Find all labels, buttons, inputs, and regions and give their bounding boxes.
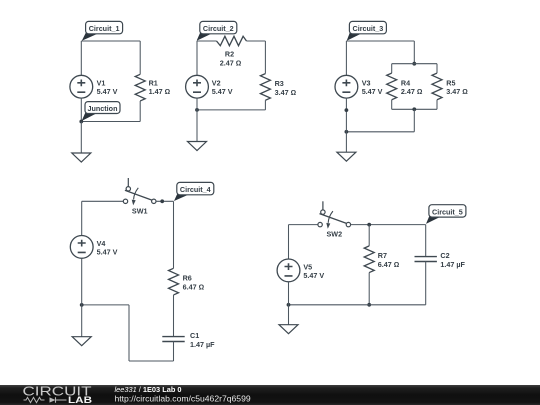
value label V5 5.47 V — [303, 262, 324, 280]
svg-text:3.47 Ω: 3.47 Ω — [275, 88, 297, 97]
wire — [368, 225, 370, 246]
wire — [425, 262, 427, 305]
resistor R4 — [387, 73, 397, 100]
svg-text:SW1: SW1 — [132, 207, 148, 216]
svg-text:http://circuitlab.com/c5u462r7: http://circuitlab.com/c5u462r7q6599 — [115, 393, 251, 403]
wire — [436, 64, 438, 73]
wire — [156, 200, 174, 202]
value label V3 5.47 V — [362, 78, 383, 96]
wire — [391, 64, 393, 73]
ground — [72, 337, 91, 346]
svg-text:Circuit_2: Circuit_2 — [203, 24, 234, 33]
svg-text:V4: V4 — [97, 239, 106, 248]
svg-text:SW2: SW2 — [327, 230, 343, 239]
wire — [289, 304, 426, 306]
resistor R3 — [260, 74, 270, 101]
svg-text:V5: V5 — [303, 262, 312, 271]
node Junction label — [82, 102, 120, 121]
wire — [197, 40, 217, 42]
node junction dot — [287, 303, 291, 307]
svg-text:Circuit_1: Circuit_1 — [89, 24, 120, 33]
svg-text:R4: R4 — [401, 78, 410, 87]
resistor R6 — [169, 268, 179, 295]
wire — [81, 305, 83, 337]
svg-text:V2: V2 — [212, 78, 221, 87]
wire — [197, 109, 265, 111]
svg-text:5.47 V: 5.47 V — [97, 248, 118, 257]
wire — [346, 131, 414, 133]
wire — [129, 360, 174, 362]
value label V2 5.47 V — [212, 78, 233, 96]
value label R2 2.47 ohm — [220, 50, 242, 68]
wire — [288, 225, 290, 260]
wire — [247, 40, 266, 42]
svg-text:6.47 Ω: 6.47 Ω — [378, 260, 400, 269]
wire — [368, 273, 370, 305]
wire — [392, 108, 437, 110]
wire — [80, 41, 82, 75]
wire — [425, 225, 427, 257]
wire — [345, 132, 347, 152]
node Circuit_4 label — [174, 182, 214, 201]
value label C1 1.47 uF — [190, 331, 215, 349]
capacitor C1 — [162, 337, 184, 342]
wire — [345, 98, 347, 132]
resistor R1 — [135, 74, 145, 101]
switch SW1 — [123, 178, 156, 205]
wire — [196, 98, 198, 110]
svg-text:C1: C1 — [190, 331, 199, 340]
resistor R2 — [217, 36, 247, 45]
svg-text:1.47 µF: 1.47 µF — [440, 260, 465, 269]
svg-text:5.47 V: 5.47 V — [212, 87, 233, 96]
svg-text:5.47 V: 5.47 V — [97, 87, 118, 96]
svg-text:R2: R2 — [225, 50, 234, 59]
wire — [196, 41, 198, 75]
svg-text:5.47 V: 5.47 V — [303, 271, 324, 280]
resistor R7 — [364, 246, 374, 273]
value label R1 1.47 ohm — [149, 78, 171, 96]
node junction dot — [412, 107, 416, 111]
value label R3 3.47 ohm — [275, 79, 297, 97]
value label R4 2.47 ohm — [401, 78, 423, 96]
wire — [82, 304, 129, 306]
switch SW2 — [318, 201, 351, 228]
wire — [173, 201, 175, 268]
value label R6 6.47 ohm — [183, 274, 205, 292]
value label R7 6.47 ohm — [378, 251, 400, 269]
wire — [173, 295, 175, 337]
wire — [392, 63, 437, 65]
node junction dot — [79, 120, 83, 124]
svg-text:1.47 µF: 1.47 µF — [190, 340, 215, 349]
footer attribution bar — [0, 385, 540, 405]
wire — [81, 258, 83, 305]
wire — [80, 98, 82, 122]
node Circuit_1 label — [82, 21, 123, 40]
node Circuit_2 label — [197, 21, 237, 40]
svg-text:Junction: Junction — [88, 104, 118, 113]
wire — [128, 305, 130, 361]
wire — [413, 109, 415, 132]
voltage source V4 — [70, 236, 93, 259]
wire — [196, 110, 198, 142]
wire — [351, 224, 426, 226]
node Circuit_3 label — [347, 21, 387, 40]
svg-text:1.47 Ω: 1.47 Ω — [149, 87, 171, 96]
svg-text:V1: V1 — [97, 78, 106, 87]
wire — [173, 342, 175, 362]
svg-text:5.47 V: 5.47 V — [362, 87, 383, 96]
svg-text:2.47 Ω: 2.47 Ω — [401, 87, 423, 96]
node junction dot — [345, 130, 349, 134]
svg-text:R1: R1 — [149, 78, 158, 87]
wire — [413, 41, 415, 64]
wire — [391, 100, 393, 110]
wire — [436, 100, 438, 110]
ground — [188, 142, 207, 151]
resistor R5 — [432, 73, 442, 100]
node junction dot — [80, 303, 84, 307]
svg-text:LAB: LAB — [68, 395, 93, 405]
wire — [264, 41, 266, 74]
svg-text:R6: R6 — [183, 274, 192, 283]
svg-text:Circuit_4: Circuit_4 — [180, 185, 211, 194]
svg-text:3.47 Ω: 3.47 Ω — [446, 87, 468, 96]
wire — [139, 101, 141, 122]
value label C2 1.47 uF — [440, 251, 465, 269]
wire — [288, 305, 290, 325]
node junction dot — [367, 303, 371, 307]
node junction dot — [367, 223, 371, 227]
value label V4 5.47 V — [97, 239, 118, 257]
wire — [81, 40, 140, 42]
value label R5 3.47 ohm — [446, 78, 468, 96]
wire — [346, 40, 414, 42]
svg-text:R7: R7 — [378, 251, 387, 260]
wire — [345, 41, 347, 75]
node junction dot — [160, 199, 164, 203]
svg-text:R3: R3 — [275, 79, 284, 88]
ground — [72, 153, 91, 162]
svg-text:6.47 Ω: 6.47 Ω — [183, 282, 205, 291]
node junction dot — [345, 108, 349, 112]
voltage source V1 — [70, 75, 93, 98]
node Circuit_5 label — [426, 205, 466, 224]
capacitor C2 — [415, 257, 437, 262]
voltage source V3 — [335, 75, 358, 98]
node junction dot — [195, 108, 199, 112]
ground — [337, 152, 356, 161]
wire — [80, 122, 82, 154]
wire — [82, 200, 124, 202]
svg-text:R5: R5 — [446, 78, 455, 87]
voltage source V5 — [277, 259, 300, 282]
ground — [279, 325, 298, 334]
svg-text:C2: C2 — [440, 251, 449, 260]
voltage source V2 — [186, 75, 209, 98]
wire — [289, 224, 318, 226]
wire — [81, 121, 140, 123]
node junction dot — [412, 62, 416, 66]
svg-text:2.47 Ω: 2.47 Ω — [220, 59, 242, 68]
wire — [139, 41, 141, 74]
svg-text:Circuit_3: Circuit_3 — [353, 24, 384, 33]
svg-text:V3: V3 — [362, 78, 371, 87]
wire — [288, 282, 290, 305]
value label V1 5.47 V — [97, 78, 118, 96]
svg-text:Circuit_5: Circuit_5 — [432, 207, 463, 216]
wire — [264, 100, 266, 110]
wire — [81, 201, 83, 235]
